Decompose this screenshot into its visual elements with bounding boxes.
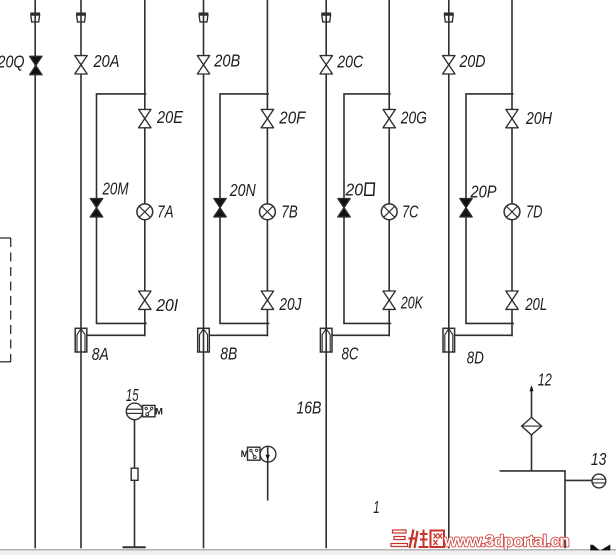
svg-text:20D: 20D <box>459 51 486 71</box>
svg-text:20H: 20H <box>525 108 552 128</box>
wire bypass branch group 2 <box>220 94 269 324</box>
svg-text:20N: 20N <box>229 180 256 200</box>
filter 8D <box>443 328 455 352</box>
label 20C <box>336 52 363 72</box>
filter 8B <box>198 328 210 352</box>
svg-text:20K: 20K <box>400 293 424 313</box>
svg-text:12: 12 <box>538 370 552 390</box>
svg-text:7D: 7D <box>526 202 543 222</box>
diamond device 12 <box>522 417 542 435</box>
wire vessel right side <box>564 471 566 548</box>
label 12 <box>538 370 552 390</box>
valve 20O (closed) <box>338 199 350 217</box>
svg-text:20M: 20M <box>102 179 129 199</box>
label 16B <box>296 398 321 418</box>
wire branch bottom header group 3 <box>343 322 391 324</box>
dashed enclosure (left edge) <box>0 238 11 362</box>
svg-text:8D: 8D <box>467 347 484 367</box>
pipe cap group 4 <box>444 14 454 22</box>
label 20G <box>400 107 427 127</box>
svg-text:20L: 20L <box>524 294 547 314</box>
filter 8A <box>75 328 87 352</box>
gauge 13 circle <box>592 474 606 488</box>
svg-text:20J: 20J <box>279 294 302 314</box>
label 20M <box>102 179 129 199</box>
label 8C <box>342 344 359 364</box>
watermark 三维网 glyphs <box>391 530 444 549</box>
svg-text:M: M <box>155 407 163 418</box>
label 7C <box>402 201 419 221</box>
wire branch bottom header group 1 <box>96 322 147 324</box>
wire bypass branch group 4 <box>466 94 514 324</box>
label 20A <box>93 51 120 71</box>
drain device circle with down arrow <box>260 446 276 500</box>
svg-text:13: 13 <box>591 449 607 469</box>
wire main line group 3 <box>325 0 327 548</box>
label 20O <box>345 179 375 199</box>
pipe cap group 2 <box>199 14 209 22</box>
filter 8C <box>320 328 332 352</box>
drain device actuator box <box>248 447 261 460</box>
label 8A <box>92 344 109 364</box>
svg-text:8B: 8B <box>220 344 237 364</box>
wire bypass branch group 3 <box>344 94 391 324</box>
valve 20N (closed) <box>214 199 226 217</box>
label M of drain device <box>241 449 249 460</box>
wire main line group 4 <box>448 0 450 548</box>
valve 20C <box>320 56 332 74</box>
pipe cap group 3 <box>321 14 331 22</box>
valve 20K <box>383 291 395 309</box>
wire stub to gauge 13 <box>565 479 592 481</box>
label 20N <box>229 180 256 200</box>
label 20Q <box>0 51 25 71</box>
label 13 <box>591 449 607 469</box>
bottom tee of stem 15 <box>123 546 146 548</box>
wire supply line Q <box>34 0 36 548</box>
pipe cap group 1 <box>76 14 86 22</box>
svg-text:16B: 16B <box>296 398 321 418</box>
wire main line group 1 <box>80 0 82 548</box>
label 20L <box>524 294 547 314</box>
svg-text:7A: 7A <box>157 201 174 221</box>
wire stem of device 15 <box>134 420 136 548</box>
label 20E <box>156 107 183 127</box>
label 20D <box>459 51 486 71</box>
label M of device 15 <box>155 407 163 418</box>
valve 20E <box>139 109 151 127</box>
svg-text:20A: 20A <box>93 51 120 71</box>
wire loop line group 2 <box>266 0 268 336</box>
valve 20J <box>261 291 273 309</box>
label 8B <box>220 344 237 364</box>
instrument 7B sight glass <box>260 204 276 220</box>
svg-text:7B: 7B <box>281 202 298 222</box>
valve 20G <box>383 109 395 127</box>
wire loop-to-filter connector group 2 <box>209 334 268 336</box>
valve 20Q (closed) <box>30 56 42 74</box>
label 20K <box>400 293 424 313</box>
valve 20A <box>75 56 87 74</box>
instrument 7C sight glass <box>381 204 397 220</box>
wire loop line group 1 <box>144 0 146 336</box>
valve 20L <box>506 291 518 309</box>
svg-text:20C: 20C <box>336 52 363 72</box>
valve 20B <box>197 56 209 74</box>
label 15 <box>126 385 139 405</box>
canvas bottom edge <box>0 550 616 555</box>
label 20H <box>525 108 552 128</box>
svg-text:20I: 20I <box>155 295 178 315</box>
wire stem of relief device 12 <box>531 387 533 471</box>
svg-text:20E: 20E <box>156 107 183 127</box>
watermark url text <box>443 532 569 551</box>
valve 20H <box>506 109 518 127</box>
arrowhead vent 12 <box>530 385 534 391</box>
wire vessel top header <box>500 470 566 472</box>
label 20B <box>213 50 240 70</box>
svg-text:8C: 8C <box>342 344 359 364</box>
label 20J <box>279 294 302 314</box>
label 8D <box>467 347 484 367</box>
device 15 actuator box <box>143 405 155 416</box>
instrument 7A sight glass <box>137 204 153 220</box>
label 7B <box>281 202 298 222</box>
label 20P <box>470 181 497 201</box>
wire branch bottom header group 4 <box>465 322 514 324</box>
label 20F <box>278 107 306 127</box>
label 1 <box>373 497 379 517</box>
device 15 rotameter circle <box>126 403 143 420</box>
svg-text:20: 20 <box>345 179 364 199</box>
valve 20M (closed) <box>90 199 102 217</box>
svg-text:7C: 7C <box>402 201 419 221</box>
valve 20P (closed) <box>460 199 472 217</box>
svg-text:8A: 8A <box>92 344 109 364</box>
svg-text:20B: 20B <box>213 50 240 70</box>
valve 20F <box>261 109 273 127</box>
svg-text:20P: 20P <box>470 181 497 201</box>
svg-text:1: 1 <box>373 497 379 517</box>
label 20I <box>155 295 178 315</box>
wire loop line group 4 <box>511 0 513 336</box>
instrument 7D sight glass <box>504 204 520 220</box>
corner resize marks <box>590 544 610 550</box>
svg-text:20F: 20F <box>278 107 306 127</box>
pipe cap on line Q <box>30 14 40 22</box>
svg-text:15: 15 <box>126 385 139 405</box>
svg-text:20Q: 20Q <box>0 51 25 71</box>
wire bypass branch group 1 <box>97 94 147 324</box>
wire loop line group 3 <box>388 0 390 336</box>
valve 20I <box>139 291 151 309</box>
valve 20D <box>443 56 455 74</box>
wire loop-to-filter connector group 3 <box>332 334 390 336</box>
wire main line group 2 <box>203 0 205 548</box>
wire loop-to-filter connector group 1 <box>87 334 146 336</box>
wire branch bottom header group 2 <box>219 322 269 324</box>
label 7D <box>526 202 543 222</box>
svg-text:www.3dportal.cn: www.3dportal.cn <box>443 532 569 551</box>
label 7A <box>157 201 174 221</box>
inline fitting on stem 15 <box>131 468 138 480</box>
wire loop-to-filter connector group 4 <box>455 334 513 336</box>
svg-text:20G: 20G <box>400 107 427 127</box>
